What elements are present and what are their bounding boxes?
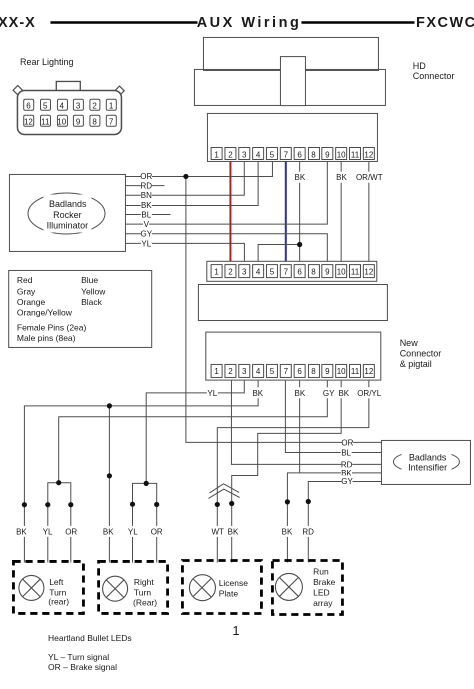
svg-text:License: License (219, 578, 249, 588)
wire BK (P3 pin6 drop) (299, 381, 301, 473)
label YL (lamp L2 wire) (127, 526, 138, 537)
wire YL (P3 pin3 to splice of lamp L2) (146, 381, 244, 484)
wire YL (U1 to P2 pin3) (125, 243, 244, 261)
HD connector housing top (203, 37, 378, 70)
P3 pin 10 (336, 364, 347, 377)
svg-text:12: 12 (24, 117, 33, 126)
wire BK drop to lamp L4 (286, 502, 288, 563)
P2 pin 10 (336, 265, 347, 278)
svg-text:Heartland Bullet LEDs: Heartland Bullet LEDs (48, 633, 132, 643)
label BK (lamp L2 wire) (103, 526, 114, 537)
svg-text:array: array (313, 598, 333, 608)
svg-text:9: 9 (325, 268, 330, 277)
splice node bracket L2 (144, 481, 149, 486)
label GY (P3 pin9 wire) (323, 387, 335, 398)
label BK (P1 pin10) (336, 172, 347, 183)
note YL - Turn signal (48, 652, 109, 662)
svg-text:6: 6 (297, 268, 302, 277)
lamp L3 License Plate enclosure (182, 561, 261, 614)
wire BK (P1 pin10 to P2 pin10) (340, 162, 342, 262)
svg-text:Left: Left (49, 577, 64, 587)
wire BN (U1 to P1 pin3) (125, 162, 244, 196)
title rule right (301, 21, 414, 23)
label OR (lamp L1 wire) (65, 526, 77, 537)
splice node bracket L1 (56, 480, 61, 485)
svg-text:Badlands: Badlands (49, 199, 87, 209)
wire OR drop to lamp L2 (156, 504, 158, 562)
label Left Turn (rear) (48, 577, 69, 606)
svg-text:Red: Red (17, 275, 33, 285)
svg-text:BK: BK (16, 527, 27, 536)
title text AUX Wiring (197, 15, 302, 31)
svg-text:Female Pins (2ea): Female Pins (2ea) (17, 323, 87, 333)
svg-text:YL: YL (141, 239, 151, 248)
svg-text:6: 6 (297, 367, 302, 376)
svg-text:Orange/Yellow: Orange/Yellow (17, 308, 73, 318)
svg-text:(rear): (rear) (48, 597, 69, 607)
svg-text:V: V (144, 220, 150, 229)
svg-text:4: 4 (256, 367, 261, 376)
label BK (lamp L3 wire) (228, 526, 239, 537)
label BK (lamp L1 wire) (16, 526, 27, 537)
label OR/YL (P3 pin12 wire) (357, 387, 382, 398)
svg-text:BK: BK (338, 389, 349, 398)
splice node YL lamp L1 (45, 502, 50, 507)
label OR/WT (P1 pin12) (356, 172, 383, 183)
svg-text:OR/YL: OR/YL (357, 389, 382, 398)
label OR (140, 170, 152, 181)
svg-text:BK: BK (103, 527, 114, 536)
wire BL stub (U1, unterminated) (125, 214, 170, 216)
svg-text:Orange: Orange (17, 297, 46, 307)
wire GY (P3 pin9 to splice of lamp L1) (59, 381, 328, 483)
label GY (141, 228, 153, 239)
title text FXCWC (416, 15, 474, 31)
J1 pin 5 (41, 99, 51, 110)
lamp L4 indicator (275, 573, 302, 600)
splice node BK lamp L2 (107, 473, 112, 478)
P2 pin 2 (225, 265, 236, 278)
wire BK (P1 pin6 to P2 pin6) (299, 162, 301, 262)
svg-text:3: 3 (242, 367, 247, 376)
wire OR/WT (P1 pin12 to P2 pin12) (368, 162, 370, 262)
svg-text:Rocker: Rocker (53, 210, 82, 220)
svg-text:BK: BK (282, 527, 293, 536)
wire BK (lamp L4 to U2 BK input) (287, 473, 381, 502)
wire BK (P3 pin4 to lamp L1) (24, 381, 258, 563)
label WT (lamp L3 wire) (211, 526, 224, 537)
wire YL drop to lamp L2 (132, 504, 134, 562)
svg-text:2: 2 (92, 101, 97, 110)
P1 pin 9 (322, 148, 333, 160)
svg-text:6: 6 (297, 150, 302, 159)
lamp L3 indicator (189, 575, 215, 601)
HD connector housing base (194, 69, 385, 105)
svg-text:4: 4 (60, 101, 65, 110)
splice chevrons (WT/BK twisted pair) (209, 484, 240, 499)
wire OR branch (node to U2 OR input) (186, 176, 382, 442)
label OR (lamp L2 wire) (151, 526, 163, 537)
svg-text:5: 5 (270, 150, 275, 159)
svg-text:5: 5 (270, 367, 275, 376)
connector P1 (HD 12-pin) body (207, 113, 377, 161)
P1 pin 6 (294, 148, 305, 160)
J1 pin 3 (73, 99, 83, 110)
splice node OR lamp L2 (154, 502, 159, 507)
J1 pin 6 (24, 99, 34, 110)
lamp L2 indicator (103, 576, 128, 601)
svg-text:OR – Brake signal: OR – Brake signal (48, 662, 117, 672)
svg-text:12: 12 (364, 150, 373, 159)
P2 pin 6 (294, 265, 305, 278)
svg-text:7: 7 (109, 117, 114, 126)
svg-text:12: 12 (364, 367, 373, 376)
svg-text:10: 10 (337, 150, 346, 159)
svg-text:5: 5 (43, 101, 48, 110)
P3 pin 6 (294, 364, 305, 377)
svg-text:FXCWC: FXCWC (416, 15, 474, 31)
module U1 Badlands Rocker Illuminator (9, 174, 125, 251)
svg-text:10: 10 (337, 367, 346, 376)
svg-text:New: New (400, 338, 419, 348)
P1 pin 7 (280, 148, 291, 160)
svg-text:Rear Lighting: Rear Lighting (20, 57, 74, 67)
svg-text:Blue: Blue (81, 275, 98, 285)
P3 pin 5 (266, 364, 277, 377)
P2 pin 4 (253, 265, 264, 278)
J1 pin 7 (106, 115, 116, 126)
svg-text:OR: OR (65, 527, 77, 536)
svg-text:GY: GY (341, 477, 353, 486)
wire BK (P3 pin10 to lamp L3 BK) (232, 381, 341, 563)
svg-text:1: 1 (232, 623, 239, 638)
wire V (U1 to P1 pin9) (125, 162, 327, 225)
junction node BK branch (107, 403, 112, 408)
label BK (P3 pin4 wire) (252, 387, 263, 398)
label HD Connector (413, 61, 455, 81)
J1 pin 12 (24, 115, 34, 126)
svg-text:10: 10 (57, 117, 66, 126)
svg-text:OR: OR (151, 527, 163, 536)
svg-text:YL – Turn signal: YL – Turn signal (48, 652, 109, 662)
label BN (141, 190, 152, 201)
svg-text:3: 3 (242, 150, 247, 159)
svg-text:2: 2 (228, 150, 233, 159)
label BK (lamp L4 wire) (282, 526, 293, 537)
svg-text:11: 11 (351, 268, 360, 277)
svg-text:OR: OR (341, 438, 353, 447)
svg-text:Black: Black (81, 297, 103, 307)
connector P3 (New Connector & pigtail) body (206, 332, 381, 380)
legend box (wire colors and pins) (9, 270, 152, 347)
wire OR drop to lamp L1 (70, 505, 72, 563)
P3 pin 9 (322, 364, 333, 377)
splice node BK lamp L3 (229, 501, 234, 506)
splice node BK lamp L4 (285, 499, 290, 504)
svg-text:9: 9 (325, 150, 330, 159)
P3 pin 3 (239, 364, 250, 377)
svg-text:Illuminator: Illuminator (47, 221, 89, 231)
svg-text:1: 1 (214, 268, 219, 277)
svg-text:1: 1 (109, 101, 114, 110)
svg-text:OR: OR (140, 172, 152, 181)
svg-text:4: 4 (256, 268, 261, 277)
svg-text:3: 3 (242, 268, 247, 277)
P1 pin 4 (253, 148, 264, 160)
P3 pin 4 (253, 364, 264, 377)
svg-text:4: 4 (256, 150, 261, 159)
P1 pin 12 (363, 148, 374, 160)
J1 pin 4 (57, 99, 67, 110)
svg-text:YL: YL (207, 389, 217, 398)
J1 pin 2 (90, 99, 100, 110)
svg-text:XX-X: XX-X (0, 15, 36, 31)
svg-text:YL: YL (128, 527, 138, 536)
svg-text:BL: BL (341, 448, 351, 457)
P3 pin 2 (225, 364, 236, 377)
splice node YL lamp L2 (130, 502, 135, 507)
svg-text:7: 7 (284, 268, 289, 277)
P3 pin 1 (211, 364, 222, 377)
wire BK branch to lamp L2 (108, 406, 110, 563)
label V (143, 219, 150, 230)
wire RD (P3 pin2 to U2 RD input) (231, 381, 381, 465)
label License Plate (219, 578, 249, 598)
label YL (P3 pin3 wire) (207, 387, 218, 398)
svg-text:BK: BK (336, 173, 347, 182)
svg-text:BK: BK (252, 389, 263, 398)
J1 pin 11 (41, 115, 51, 126)
title text XX-X (0, 15, 36, 31)
wire RD drop to lamp L4 (307, 502, 309, 563)
label YL (141, 238, 152, 249)
svg-text:8: 8 (92, 117, 97, 126)
svg-text:7: 7 (284, 150, 289, 159)
label BK (141, 199, 152, 210)
svg-text:BN: BN (141, 191, 152, 200)
svg-text:AUX Wiring: AUX Wiring (197, 15, 302, 31)
splice node BK lamp L1 (22, 502, 27, 507)
svg-text:RD: RD (302, 527, 314, 536)
svg-text:Male pins (8ea): Male pins (8ea) (17, 333, 76, 343)
wire YL drop to lamp L1 (47, 505, 49, 563)
label Rear Lighting (20, 57, 74, 67)
P3 pin 12 (363, 364, 374, 377)
svg-text:Connector: Connector (413, 71, 455, 81)
svg-text:2: 2 (228, 268, 233, 277)
wire GY (lamp L4 RD to U2 GY input) (308, 481, 381, 501)
title rule left (50, 21, 197, 23)
J1 pin 1 (106, 99, 116, 110)
J1 pin 8 (90, 115, 100, 126)
label Run Brake LED array (313, 567, 335, 608)
svg-text:8: 8 (311, 367, 316, 376)
svg-text:2: 2 (228, 367, 233, 376)
wire BK branch (node to P2 pin4) (258, 245, 300, 262)
svg-text:11: 11 (351, 367, 360, 376)
svg-text:YL: YL (43, 527, 53, 536)
label Right Turn (Rear) (133, 577, 157, 607)
svg-text:1: 1 (214, 367, 219, 376)
splice node WT lamp L3 (215, 502, 220, 507)
note Heartland Bullet LEDs (48, 633, 132, 643)
svg-text:Right: Right (134, 577, 154, 587)
wire BL net (blue, P1 pin7 to P2 pin7) (285, 162, 287, 262)
label RD (lamp L4 wire) (302, 526, 314, 537)
svg-text:GY: GY (323, 389, 335, 398)
svg-text:Yellow: Yellow (81, 286, 106, 296)
svg-text:Badlands: Badlands (409, 452, 447, 462)
P1 pin 11 (350, 148, 361, 160)
svg-text:3: 3 (76, 101, 81, 110)
svg-text:5: 5 (270, 268, 275, 277)
wire BK (U1 to P1 pin4) (125, 162, 258, 206)
svg-text:HD: HD (413, 61, 426, 71)
lamp L4 Run Brake LED array enclosure (272, 561, 342, 615)
svg-text:Gray: Gray (17, 286, 36, 296)
module U2 Badlands Intensifier (381, 440, 470, 484)
page number 1 (232, 623, 239, 638)
P2 pin 3 (239, 265, 250, 278)
svg-text:Connector: Connector (400, 349, 442, 359)
label BL (U2 input) (341, 447, 352, 458)
P3 pin 8 (308, 364, 319, 377)
wire OR/YL (P3 pin12 to WT splice) (217, 381, 369, 563)
lamp L1 Left Turn (rear) enclosure (13, 561, 83, 613)
label BK (P1 pin6) (294, 172, 305, 183)
P2 pin 8 (308, 265, 319, 278)
P1 pin 8 (308, 148, 319, 160)
P3 pin 11 (350, 364, 361, 377)
svg-text:8: 8 (311, 268, 316, 277)
P2 pin 12 (363, 265, 374, 278)
wire YL/OR splice bracket for lamp L1 (48, 483, 71, 505)
svg-text:WT: WT (211, 527, 224, 536)
connector J1 Rear Lighting body (13, 81, 124, 134)
svg-text:8: 8 (311, 150, 316, 159)
wire GY (U1 to P2 pin9) (125, 234, 327, 261)
svg-text:LED: LED (313, 587, 330, 597)
note OR - Brake signal (48, 662, 117, 672)
P2 pin 5 (266, 265, 277, 278)
P1 pin 10 (336, 148, 347, 160)
svg-text:GY: GY (141, 230, 153, 239)
svg-text:BL: BL (141, 210, 151, 219)
wire RD net (red, P1 pin2 to P2 pin2) (229, 162, 231, 262)
svg-text:BK: BK (141, 201, 152, 210)
lamp L1 indicator (19, 575, 44, 600)
HD connector latch (280, 57, 305, 106)
label BK (P3 pin10 wire) (338, 387, 349, 398)
label RD (141, 180, 153, 191)
label RD (U2 input) (341, 459, 353, 470)
svg-text:9: 9 (76, 117, 81, 126)
svg-text:BK: BK (295, 173, 306, 182)
wire OR (U1 to P1 pin5) (125, 162, 272, 177)
splice node RD lamp L4 (306, 499, 311, 504)
svg-text:& pigtail: & pigtail (400, 359, 432, 369)
P2 pin 11 (350, 265, 361, 278)
svg-text:6: 6 (26, 101, 31, 110)
P1 pin 3 (239, 148, 250, 160)
svg-text:9: 9 (325, 367, 330, 376)
J1 pin 10 (57, 115, 67, 126)
connector P2 pin header body (207, 261, 377, 281)
svg-text:Brake: Brake (313, 577, 335, 587)
svg-text:BK: BK (295, 389, 306, 398)
wire BL (P3 pin7 to U2 BL input) (285, 381, 381, 453)
P1 pin 1 (211, 148, 222, 160)
svg-text:Plate: Plate (219, 589, 239, 599)
splice node OR lamp L1 (68, 502, 73, 507)
svg-text:(Rear): (Rear) (133, 598, 157, 608)
junction node on BK wire (P2 pin6 branch) (297, 242, 302, 247)
junction node on OR wire (183, 174, 188, 179)
svg-text:OR/WT: OR/WT (356, 173, 383, 182)
P3 pin 7 (280, 364, 291, 377)
svg-text:11: 11 (41, 117, 50, 126)
label OR (U2 input) (341, 437, 353, 448)
svg-text:RD: RD (141, 182, 153, 191)
P1 pin 2 (225, 148, 236, 160)
svg-text:10: 10 (337, 268, 346, 277)
label BL (141, 209, 152, 220)
wire YL/OR splice bracket for lamp L2 (133, 483, 157, 504)
label GY (U2 input) (341, 475, 353, 486)
wire RD stub (U1, unterminated) (125, 185, 164, 187)
svg-text:12: 12 (364, 268, 373, 277)
label BK (P3 pin6 wire) (294, 387, 305, 398)
lamp L2 Right Turn (Rear) enclosure (99, 561, 168, 613)
connector P2 receptacle shell (198, 285, 387, 321)
P2 pin 1 (211, 265, 222, 278)
P1 pin 5 (266, 148, 277, 160)
svg-text:Intensifier: Intensifier (408, 463, 447, 473)
svg-text:Turn: Turn (134, 587, 151, 597)
svg-text:BK: BK (228, 527, 239, 536)
J1 pin 9 (73, 115, 83, 126)
label YL (lamp L1 wire) (42, 526, 53, 537)
svg-text:1: 1 (214, 150, 219, 159)
svg-text:11: 11 (351, 150, 360, 159)
label BK (U2 input) (341, 467, 352, 478)
svg-text:Run: Run (313, 567, 329, 577)
P2 pin 9 (322, 265, 333, 278)
svg-text:7: 7 (284, 367, 289, 376)
P2 pin 7 (280, 265, 291, 278)
label New Connector & pigtail (400, 338, 442, 369)
